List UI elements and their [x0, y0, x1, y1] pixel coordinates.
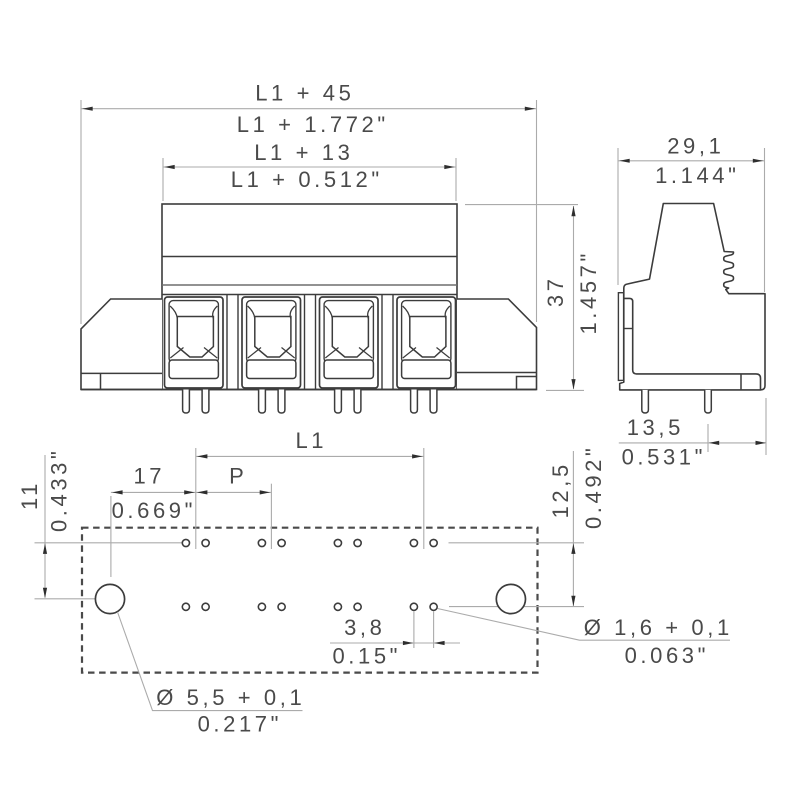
side pin right [705, 390, 712, 413]
terminal cell 1 outer box [165, 297, 224, 388]
divider 3 line a [381, 295, 383, 390]
terminal cell 2 wire clamp [247, 360, 296, 379]
side view body outline [620, 204, 765, 390]
svg-text:L1 + 45: L1 + 45 [255, 81, 354, 106]
extension line pole2 mid [270, 484, 272, 549]
pin 3a (front view) [335, 390, 342, 414]
big mounting hole left [95, 584, 124, 613]
side bottom-right divider [740, 374, 742, 390]
hole pole4a row2 [410, 603, 417, 610]
dim line L1 (drilling plan) [196, 455, 424, 457]
extension line right (L1+13) [455, 158, 457, 201]
extension line circle center (17) [110, 496, 112, 577]
leader line dia 1,6 [438, 609, 731, 641]
terminal cell 2 screw funnel [255, 317, 291, 358]
hole pole4a row1 [410, 539, 417, 546]
terminal cell 2 funnel mouth left curve [248, 306, 255, 319]
dim line 17 / P [111, 491, 272, 493]
pin 2a (front view) [259, 390, 266, 414]
dim line L1+45 [81, 108, 537, 110]
divider 1 line a [226, 295, 228, 390]
terminal cell 3 funnel mouth right curve [368, 306, 373, 319]
terminal cell 1 screw funnel [177, 317, 213, 358]
svg-text:1.457": 1.457" [576, 250, 601, 334]
terminal cell 2 lower-right wedge [282, 348, 295, 359]
svg-text:L1 + 0.512": L1 + 0.512" [231, 167, 383, 192]
svg-text:37: 37 [543, 275, 568, 307]
terminal cell 3 outer box [320, 297, 379, 388]
svg-text:Ø 1,6 + 0,1: Ø 1,6 + 0,1 [584, 615, 733, 640]
terminal cell 2 outer box [242, 297, 301, 388]
hole pole1b row1 [202, 539, 209, 546]
svg-text:L1: L1 [295, 428, 327, 453]
terminal cell 4 lower-right wedge [437, 348, 450, 359]
hole pole3a row1 [334, 539, 341, 546]
terminal cell 2 inner frame [247, 301, 296, 363]
row2 extension line right [449, 606, 584, 608]
pin 4b (front view) [430, 390, 437, 414]
left flange bottom strip line [81, 372, 162, 374]
hole pole2b row2 [278, 603, 285, 610]
side flange plate [618, 293, 623, 381]
right flange strip corner box [517, 377, 537, 390]
pin 2b (front view) [278, 390, 285, 414]
hole pole1a row2 [182, 603, 189, 610]
hole pole1b row2 [202, 603, 209, 610]
hole pole3b row1 [354, 539, 361, 546]
extension line top (37) [465, 204, 578, 206]
divider 2 line a [304, 295, 306, 390]
right flange bottom strip line [457, 372, 537, 374]
right mounting flange [457, 299, 537, 390]
terminal cell 3 screw funnel [332, 317, 368, 358]
svg-text:17: 17 [133, 464, 165, 489]
dim line 12,5 vertical [572, 451, 574, 607]
terminal cell 3 inner frame [324, 301, 373, 363]
dim line 11 vertical [44, 455, 46, 598]
svg-text:0.669": 0.669" [112, 498, 196, 523]
pin 3b (front view) [354, 390, 361, 414]
hole pole4b row1 [430, 539, 437, 546]
dim line 37 vertical [573, 206, 575, 389]
terminal cell 3 funnel mouth left curve [325, 306, 332, 319]
row1 extension line right [449, 542, 585, 544]
divider 2 line b [315, 295, 317, 390]
terminal cell 4 screw funnel [410, 317, 446, 358]
divider 1 line b [237, 295, 239, 390]
terminal cell 4 outer box [397, 297, 456, 388]
svg-text:3,8: 3,8 [344, 615, 385, 640]
terminal cell 1 lower-left wedge [170, 348, 183, 359]
svg-text:12,5: 12,5 [548, 461, 573, 518]
hole pole2a row1 [258, 539, 265, 546]
body horizontal line 1 [162, 256, 457, 258]
drilling plan dashed outline [82, 528, 538, 673]
side inner wall [624, 298, 761, 390]
extension line right (29,1) [764, 148, 766, 292]
extension line left (29,1) [617, 148, 619, 285]
terminal cell 2 lower-left wedge [248, 348, 261, 359]
svg-text:1.144": 1.144" [655, 163, 739, 188]
big-circle row extension line left [35, 598, 96, 600]
extension line right (L1+45) [536, 100, 538, 322]
terminal cell 4 wire clamp [402, 360, 451, 379]
body horizontal line 2 [162, 284, 457, 286]
terminal cell 3 wire clamp [324, 360, 373, 379]
left mounting flange [81, 299, 162, 390]
svg-text:0.217": 0.217" [198, 712, 282, 737]
big mounting hole right [496, 584, 525, 613]
extension line left (L1+13) [162, 158, 164, 201]
side inner tick [624, 328, 633, 330]
extension lines 3,8 [413, 612, 415, 649]
terminal cell 1 inner frame [169, 301, 218, 363]
svg-text:Ø 5,5 + 0,1: Ø 5,5 + 0,1 [156, 685, 305, 710]
svg-text:L1 + 1.772": L1 + 1.772" [237, 112, 389, 137]
row1 extension line left [35, 542, 183, 544]
svg-text:0.531": 0.531" [622, 445, 706, 470]
pin 1a (front view) [183, 390, 190, 414]
svg-text:13,5: 13,5 [627, 415, 684, 440]
dim line L1+13 [163, 166, 456, 168]
hole pole1a row1 [182, 539, 189, 546]
terminal cell 3 lower-left wedge [325, 348, 338, 359]
svg-text:L1 + 13: L1 + 13 [254, 140, 353, 165]
hole pole2a row2 [258, 603, 265, 610]
terminal cell 4 inner frame [402, 301, 451, 363]
svg-text:11: 11 [17, 480, 42, 510]
svg-text:0.492": 0.492" [581, 445, 606, 529]
dim line 3,8 [330, 642, 460, 644]
terminal block body outline [162, 204, 457, 390]
svg-text:29,1: 29,1 [667, 134, 724, 159]
extension line pole1 mid [195, 448, 197, 549]
divider 3 line b [392, 295, 394, 390]
body horizontal line 3 (section top) [162, 294, 457, 296]
terminal cell 4 funnel mouth left curve [403, 306, 410, 319]
side pin left [642, 390, 649, 413]
extension line left (L1+45) [80, 100, 82, 324]
terminal cell 1 wire clamp [169, 360, 218, 379]
terminal cell 3 lower-right wedge [359, 348, 372, 359]
terminal cell 4 funnel mouth right curve [445, 306, 450, 319]
hole pole3a row2 [334, 603, 341, 610]
terminal cell 1 funnel mouth left curve [170, 306, 177, 319]
leader line dia 5,5 [118, 612, 303, 711]
hole pole4b row2 [430, 603, 437, 610]
extension line bottom (37) [546, 389, 584, 391]
svg-text:0.15": 0.15" [332, 644, 401, 669]
terminal cell 1 lower-right wedge [204, 348, 217, 359]
left flange strip divider [100, 373, 102, 389]
hole pole3b row2 [354, 603, 361, 610]
extension line (13,5) at pin [707, 424, 709, 452]
svg-text:0.063": 0.063" [625, 643, 709, 668]
terminal cell 4 lower-left wedge [403, 348, 416, 359]
terminal cell 1 funnel mouth right curve [213, 306, 218, 319]
extension line (13,5) right [765, 398, 767, 455]
pin 1b (front view) [202, 390, 209, 414]
hole pole2b row1 [278, 539, 285, 546]
extension line pole4 mid [423, 448, 425, 549]
dim line 29,1 [618, 160, 765, 162]
terminal cell 2 funnel mouth right curve [290, 306, 295, 319]
svg-text:0.433": 0.433" [47, 448, 72, 532]
svg-text:P: P [229, 464, 247, 489]
housing bottom edge [81, 389, 537, 391]
dim line 13,5 [619, 442, 766, 444]
pin 4a (front view) [411, 390, 418, 414]
